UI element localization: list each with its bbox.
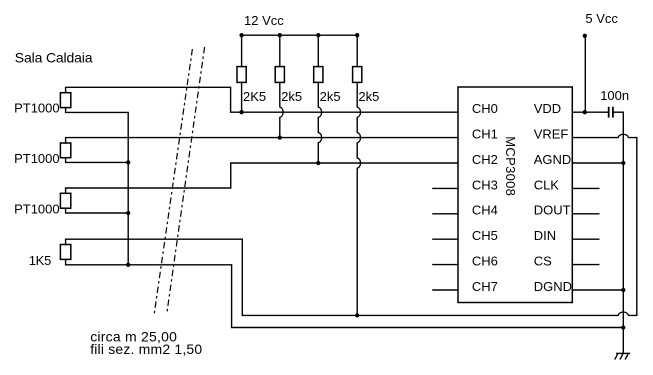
svg-text:DOUT: DOUT xyxy=(534,203,571,218)
svg-text:2k5: 2k5 xyxy=(320,89,341,104)
svg-text:CH4: CH4 xyxy=(472,203,498,218)
svg-text:DGND: DGND xyxy=(534,279,572,294)
svg-text:CH6: CH6 xyxy=(472,254,498,269)
svg-text:CH3: CH3 xyxy=(472,177,498,192)
svg-text:fili sez. mm2 1,50: fili sez. mm2 1,50 xyxy=(90,341,202,357)
svg-text:CH0: CH0 xyxy=(472,101,498,116)
svg-text:2k5: 2k5 xyxy=(358,89,379,104)
svg-text:CH5: CH5 xyxy=(472,228,498,243)
svg-text:PT1000: PT1000 xyxy=(14,101,60,116)
svg-text:CH1: CH1 xyxy=(472,127,498,142)
svg-text:5 Vcc: 5 Vcc xyxy=(585,11,618,26)
svg-text:CH2: CH2 xyxy=(472,152,498,167)
svg-text:DIN: DIN xyxy=(534,228,556,243)
svg-text:PT1000: PT1000 xyxy=(14,151,60,166)
svg-text:100n: 100n xyxy=(600,88,629,103)
svg-text:1K5: 1K5 xyxy=(29,253,51,268)
svg-text:VDD: VDD xyxy=(534,101,561,116)
svg-text:CH7: CH7 xyxy=(472,279,498,294)
svg-text:PT1000: PT1000 xyxy=(14,201,60,216)
svg-text:12 Vcc: 12 Vcc xyxy=(244,13,284,28)
svg-text:AGND: AGND xyxy=(534,152,572,167)
svg-text:2K5: 2K5 xyxy=(243,89,266,104)
svg-text:CLK: CLK xyxy=(534,177,560,192)
svg-text:2k5: 2k5 xyxy=(281,89,302,104)
svg-text:CS: CS xyxy=(534,254,552,269)
svg-text:Sala Caldaia: Sala Caldaia xyxy=(15,50,93,66)
svg-text:VREF: VREF xyxy=(534,127,569,142)
svg-text:MCP3008: MCP3008 xyxy=(503,136,518,196)
